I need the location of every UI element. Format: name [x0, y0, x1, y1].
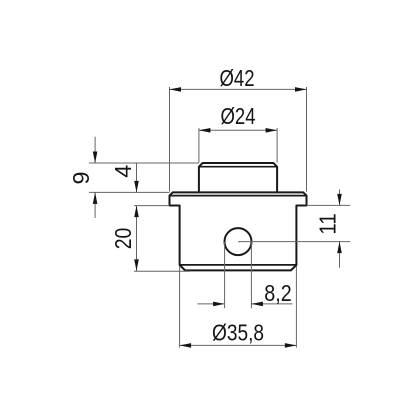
dimension O35,8: arrow left [180, 343, 192, 348]
dimension 11: extension line bottom (centerline from hole) [238, 241, 350, 243]
dimension O24: extension line right [276, 128, 278, 163]
dimension 9: arrow bottom [93, 192, 98, 204]
dimension O24: extension line left [198, 128, 200, 163]
body chamfer edge line [180, 264, 297, 266]
svg-text:11: 11 [314, 213, 340, 235]
dimension O42: extension line right [306, 87, 308, 192]
dimension O35,8: arrow right [285, 343, 297, 348]
dimension O24: dimension line [199, 129, 277, 131]
flange chamfer edge line [170, 195, 307, 197]
svg-text:20: 20 [110, 228, 136, 250]
dimension O42: arrow left [170, 87, 182, 92]
dimension 11: arrow bottom [337, 242, 342, 254]
dimension O24: arrow left [199, 128, 211, 133]
svg-text:Ø24: Ø24 [221, 103, 256, 129]
svg-text:8,2: 8,2 [264, 280, 292, 306]
dimension 4: arrow top [134, 181, 139, 193]
dimension 4: dimension line top tail [136, 163, 138, 192]
dimension 20: arrow bottom [134, 259, 139, 271]
dimension O35,8: extension line left [179, 266, 181, 348]
dimension 11: extension line top [307, 204, 351, 206]
dimension 8,2: arrow right [251, 302, 263, 307]
dimension O42: extension line left [169, 87, 171, 192]
dimension 11: dimension line top tail [339, 190, 341, 206]
svg-text:Ø35,8: Ø35,8 [212, 320, 264, 346]
dimension 4: extension line bottom [134, 205, 170, 207]
dimension 20: arrow top [134, 206, 139, 218]
dimension 11: dimension line bottom tail [339, 242, 341, 268]
dimension O24: arrow right [266, 128, 278, 133]
dimension 9: extension line bottom [89, 191, 170, 193]
dimension 8,2: dimension line left tail [198, 303, 225, 305]
dimension O42: arrow right [295, 87, 307, 92]
dimension 9: extension line top [89, 162, 199, 164]
dimension 8,2: extension line right (hole tangent) [250, 242, 252, 308]
svg-text:Ø42: Ø42 [220, 65, 255, 91]
dimension O42: dimension line [170, 88, 307, 90]
dimension 20: dimension line [136, 206, 138, 271]
svg-text:9: 9 [68, 171, 94, 184]
dimension 20: extension line bottom [134, 270, 190, 272]
dimension 9: arrow top [93, 152, 98, 164]
dimension 11: arrow top [337, 194, 342, 206]
dimension 8,2: arrow left [213, 302, 225, 307]
dimension O35,8: dimension line [180, 344, 297, 346]
dimension O35,8: extension line right [295, 266, 297, 348]
hole circle [225, 228, 252, 255]
dimension 9: dimension line bottom tail [94, 192, 96, 218]
dimension 8,2: dimension line right tail [251, 303, 292, 305]
dimension 9: dimension line top tail [94, 137, 96, 163]
boss chamfer edge line [199, 166, 277, 168]
svg-text:4: 4 [110, 165, 136, 178]
dimension 8,2: extension line left (hole tangent) [224, 242, 226, 308]
flange top edge [199, 191, 277, 193]
part silhouette outline [170, 163, 307, 270]
